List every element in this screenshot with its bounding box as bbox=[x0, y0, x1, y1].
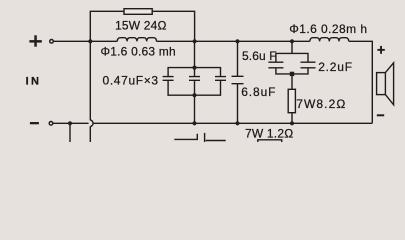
svg-text:6.8uF: 6.8uF bbox=[241, 85, 276, 99]
svg-text:15W 24Ω: 15W 24Ω bbox=[115, 19, 167, 33]
svg-text:7W8.2Ω: 7W8.2Ω bbox=[296, 97, 346, 111]
svg-text:Φ1.6 0.63 mh: Φ1.6 0.63 mh bbox=[101, 45, 176, 59]
svg-text:7W 1.2Ω: 7W 1.2Ω bbox=[245, 127, 293, 141]
svg-text:Φ1.6 0.28m h: Φ1.6 0.28m h bbox=[289, 22, 367, 36]
svg-text:2.2uF: 2.2uF bbox=[318, 60, 353, 74]
svg-text:5.6u F: 5.6u F bbox=[242, 49, 277, 63]
svg-text:IN: IN bbox=[26, 76, 42, 88]
svg-text:0.47uF×3: 0.47uF×3 bbox=[103, 74, 159, 88]
